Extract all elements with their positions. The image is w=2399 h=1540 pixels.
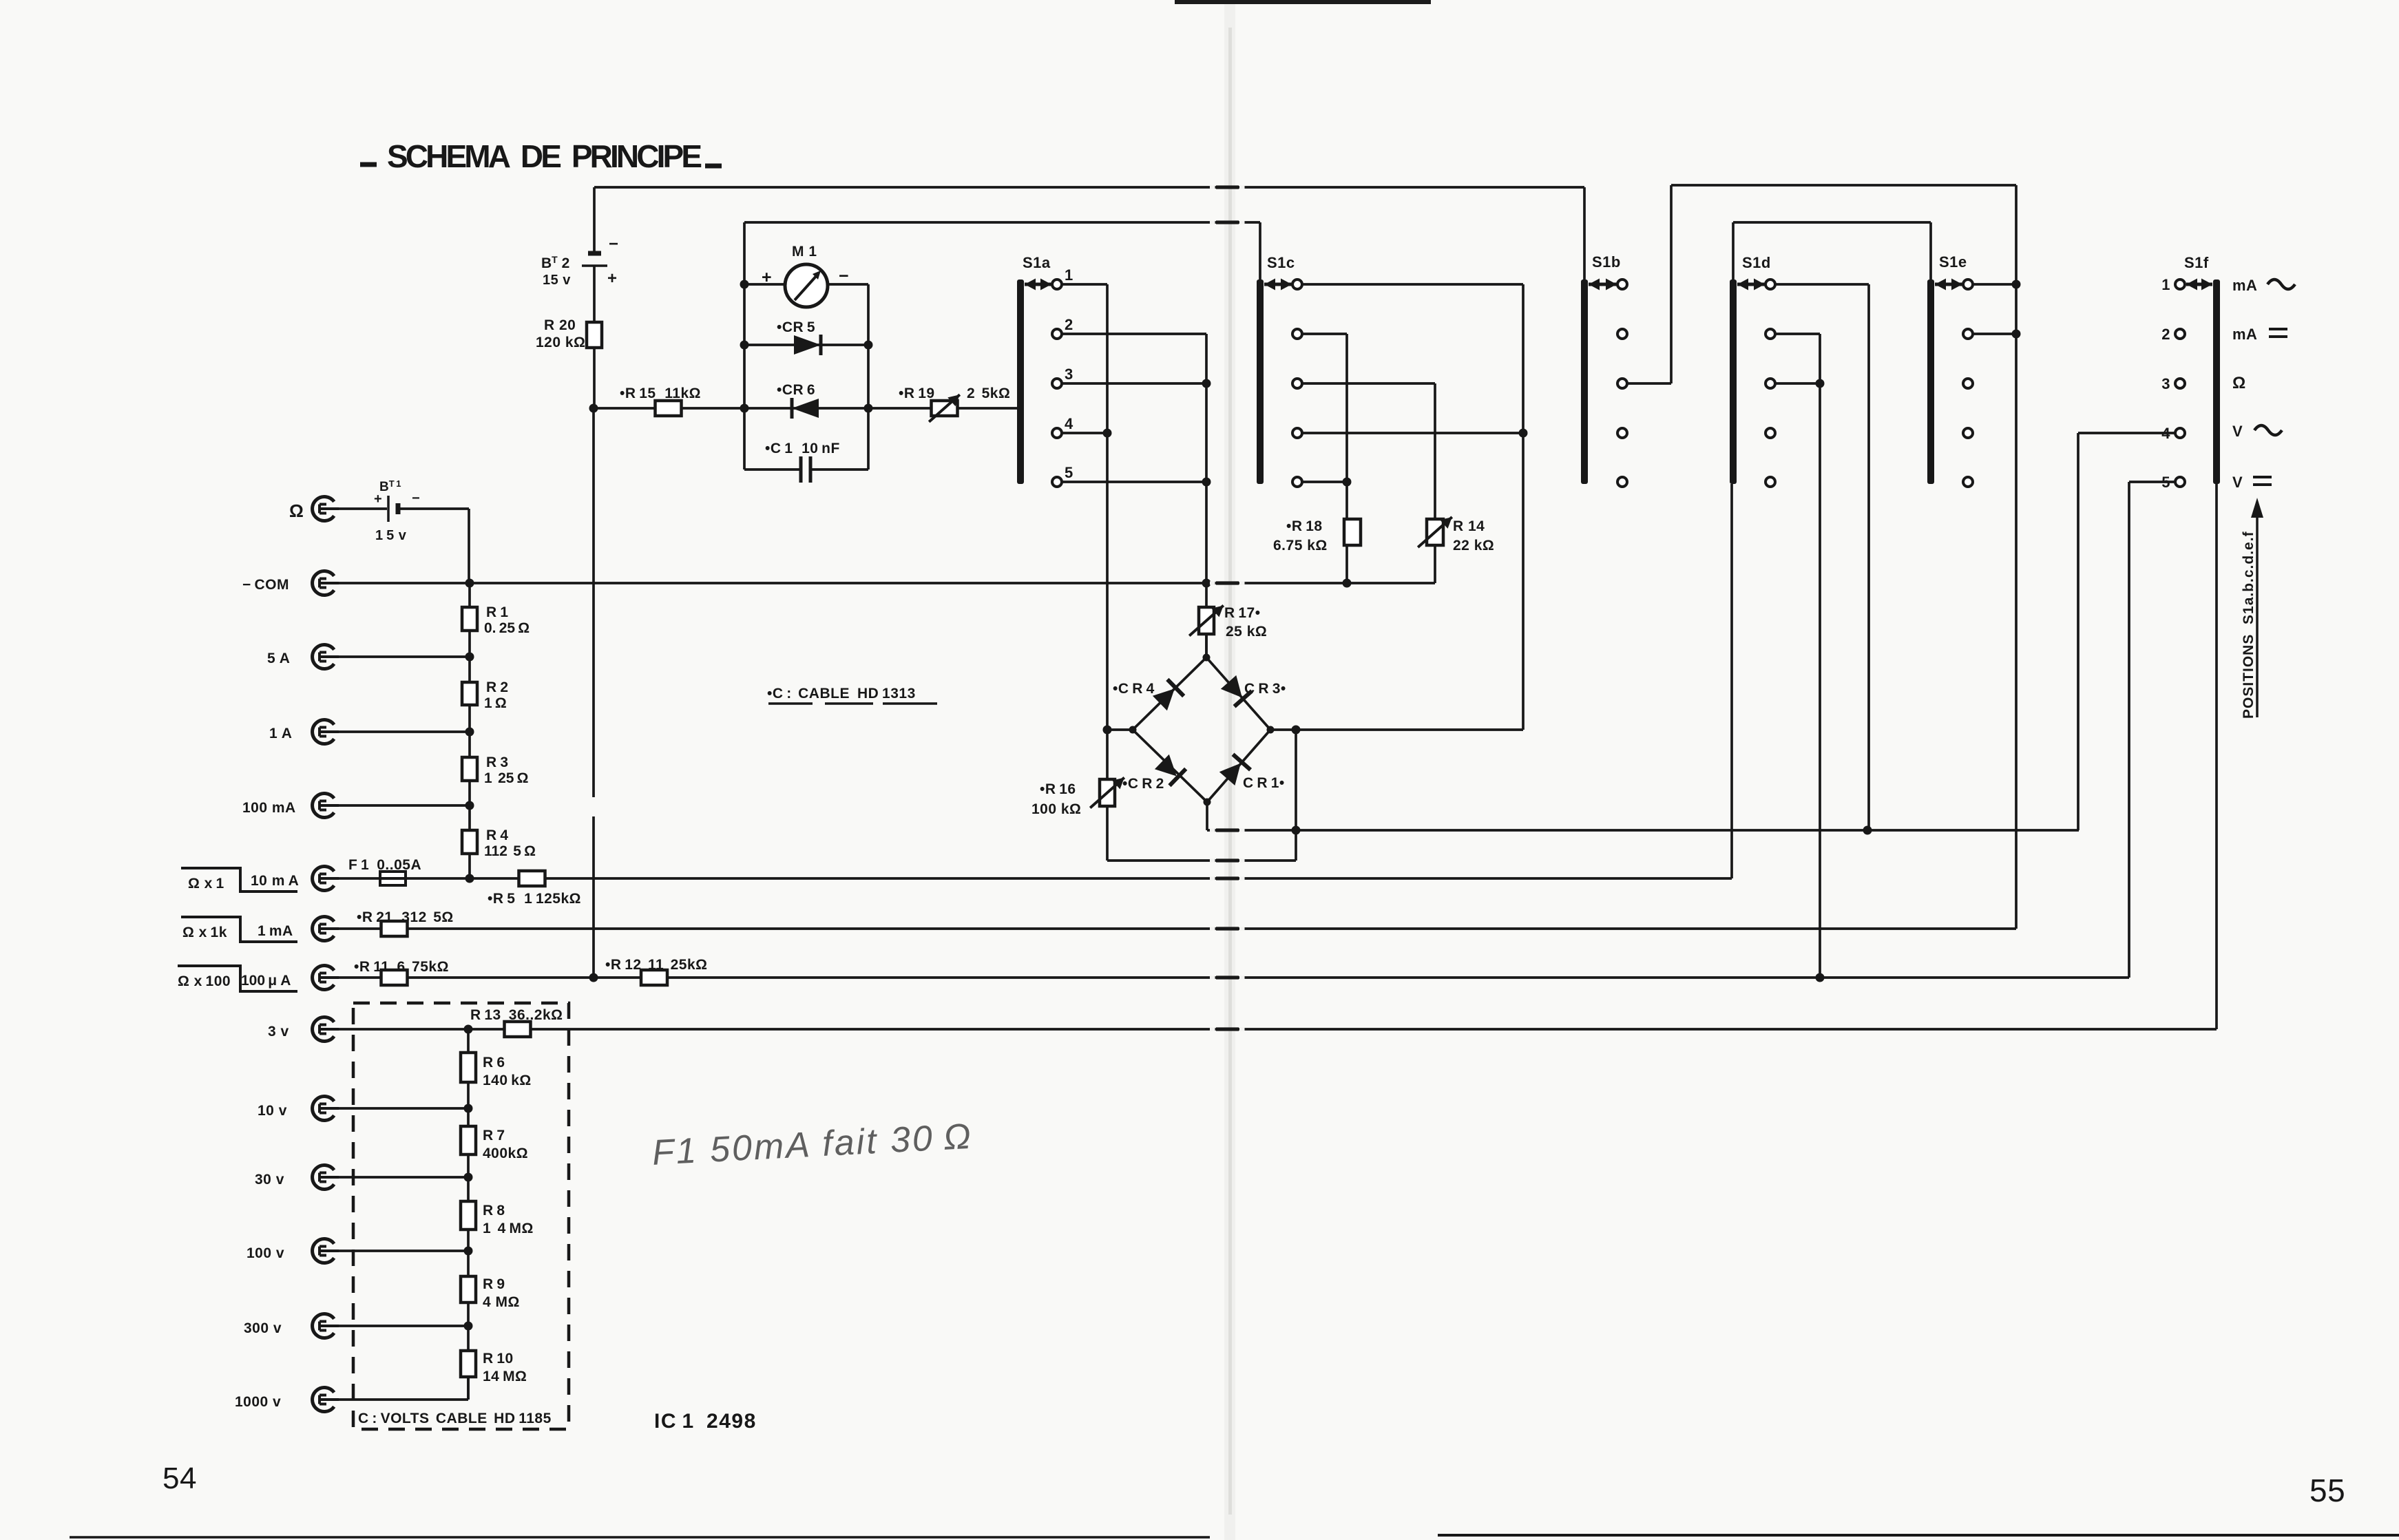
switch S1b contact 3 <box>1617 379 1627 388</box>
diode CR4 <box>1113 679 1184 710</box>
bracket ohms x1 <box>181 868 297 892</box>
wire S1c contact3 <box>1302 382 1435 385</box>
diode CR2 <box>1122 755 1186 792</box>
wire S1a contact4 <box>1062 432 1107 434</box>
top scan artifact bar <box>1175 0 1431 4</box>
bracket ohms x1k <box>181 917 297 942</box>
switch S1d contact 4 <box>1766 428 1775 438</box>
terminal 3V jack <box>268 1017 339 1041</box>
wire S1c contact5 <box>1302 481 1347 483</box>
terminal 1mA jack <box>258 917 339 941</box>
wire 10V <box>339 1107 468 1110</box>
svg-text:•R 5 1 125kΩ: •R 5 1 125kΩ <box>488 891 581 907</box>
wire 10mA rail <box>339 877 1732 880</box>
switch S1e bar <box>1927 253 1967 484</box>
switch S1e contact 1 <box>1963 279 1973 289</box>
terminal 100V jack <box>247 1239 339 1263</box>
fuse F1 0.05A <box>348 857 421 885</box>
wire S1d bar continuation to 10mA rail <box>1730 484 1733 878</box>
svg-text:C R 1•: C R 1• <box>1243 775 1285 791</box>
switch S1f wiper arrow <box>2186 279 2212 291</box>
wire S1d c2-c3 riser <box>1819 334 1821 978</box>
switch S1b contact 2 <box>1617 329 1627 339</box>
wire S1f contact5 <box>2129 481 2175 483</box>
wire bridge edge CR1 <box>1207 730 1270 802</box>
svg-text:5 A: 5 A <box>267 651 290 666</box>
bottom scan edge line right <box>1438 1534 2399 1537</box>
svg-text:•R 15 11kΩ: •R 15 11kΩ <box>620 386 701 401</box>
svg-text:R 9: R 9 <box>483 1276 505 1292</box>
terminal 100uA jack <box>241 966 339 990</box>
svg-text:1000 v: 1000 v <box>235 1394 281 1410</box>
svg-text:R 14: R 14 <box>1453 518 1485 534</box>
svg-text:2 5kΩ: 2 5kΩ <box>967 386 1010 401</box>
wire bottom return rail <box>1107 859 1296 862</box>
svg-text:•R 11 6 75kΩ: •R 11 6 75kΩ <box>354 959 449 975</box>
wire meter row <box>744 283 868 286</box>
resistor R18 6.75k <box>1273 518 1361 553</box>
wire S1c top stub <box>1259 222 1261 279</box>
wire meter box right vertical <box>867 284 870 470</box>
junction 300V chain <box>464 1322 473 1331</box>
wire S1e contact2 <box>1973 333 2016 335</box>
wire S1b contact3 riser to top <box>1670 185 1673 383</box>
battery BT1 1.5v <box>374 478 420 543</box>
junction 10mA chain <box>465 874 474 883</box>
svg-text:1 mA: 1 mA <box>258 923 293 939</box>
switch S1c contact 5 <box>1292 477 1302 487</box>
junction R15 node <box>589 404 598 413</box>
label V AC <box>2232 423 2282 440</box>
junction CR5 left <box>740 341 749 350</box>
svg-text:112 5 Ω: 112 5 Ω <box>484 843 536 859</box>
wire S1a riser c1-c4 <box>1106 284 1109 861</box>
wire x1882 vertical <box>1295 730 1297 861</box>
junction bridge right corner <box>1267 726 1275 734</box>
wire 30V <box>339 1176 468 1179</box>
wire 5A <box>339 655 470 658</box>
wire S1d top stub <box>1732 222 1735 279</box>
diode CR3 <box>1221 675 1286 706</box>
junction 3V chain <box>464 1025 473 1034</box>
wire R15 to meter box <box>682 407 744 410</box>
svg-text:14 MΩ: 14 MΩ <box>483 1369 527 1384</box>
wire bridge bottom rail <box>1207 829 2079 832</box>
wire S1f c4 riser <box>2077 433 2080 830</box>
junction bridge right x1882 <box>1292 726 1301 735</box>
svg-text:100 v: 100 v <box>247 1245 284 1261</box>
svg-text:•R 19: •R 19 <box>899 386 935 401</box>
junction bottom rail S1d c1 <box>1863 826 1872 835</box>
wire bridge edge CR4 <box>1133 657 1206 730</box>
switch S1c bar <box>1257 254 1295 484</box>
switch S1e contact 2 <box>1963 329 1973 339</box>
terminal 30V jack <box>255 1165 339 1189</box>
switch S1d contact 2 <box>1766 329 1775 339</box>
wire S1c contact1 to x2212 <box>1302 283 1523 286</box>
svg-text:2: 2 <box>2161 326 2170 343</box>
svg-text:5: 5 <box>1065 464 1073 481</box>
wire S1c c2 riser through R18 <box>1345 334 1348 583</box>
switch S1f bar <box>2184 254 2220 484</box>
svg-text:4 MΩ: 4 MΩ <box>483 1294 520 1310</box>
svg-text:1 5 v: 1 5 v <box>375 528 407 543</box>
switch S1a contact 1 <box>1052 266 1073 289</box>
wire 100mA <box>339 804 470 807</box>
wire meter box left vertical <box>743 222 746 470</box>
svg-text:300 v: 300 v <box>244 1320 282 1336</box>
bracket ohms x100 <box>178 966 297 991</box>
svg-text:10 m A: 10 m A <box>251 873 299 889</box>
svg-text:+: + <box>762 268 772 287</box>
svg-text:6.75 kΩ: 6.75 kΩ <box>1273 538 1328 553</box>
potentiometer R16 100k <box>1031 778 1124 818</box>
svg-text:POSITIONS S1a.b.c.d.e.f: POSITIONS S1a.b.c.d.e.f <box>2241 531 2256 719</box>
switch S1a contact 3 <box>1052 366 1073 388</box>
switch S1f contact 5 <box>2161 474 2185 491</box>
wire S1d-S1e top rail <box>1733 221 1931 224</box>
junction bridge top corner <box>1203 654 1211 662</box>
wire x2212 riser <box>1522 284 1525 730</box>
terminal 300V jack <box>244 1314 339 1338</box>
wire R6-R10 chain <box>467 1029 470 1400</box>
svg-text:1 4 MΩ: 1 4 MΩ <box>483 1221 534 1236</box>
svg-text:•C R 4: •C R 4 <box>1113 681 1155 697</box>
resistor R1 0.25 <box>462 604 530 636</box>
wire S1c c3 riser through R14 <box>1434 383 1436 583</box>
svg-text:IC 1 2498: IC 1 2498 <box>654 1410 757 1433</box>
junction 30V chain <box>464 1173 473 1182</box>
wire BT2 top lead <box>593 187 596 253</box>
switch S1f contact 2 <box>2161 326 2185 343</box>
svg-text:R 1: R 1 <box>486 604 509 620</box>
junction S1e c1 on x2928 <box>2012 280 2021 289</box>
wire top rail S1b to S1e riser <box>1671 184 2016 187</box>
svg-text:•R 21 312 5Ω: •R 21 312 5Ω <box>357 909 454 925</box>
wire S1d c1 riser <box>1867 284 1870 830</box>
switch S1b wiper arrow <box>1589 279 1617 291</box>
wire S1a riser c2-c3-c5 <box>1205 334 1208 657</box>
switch S1e wiper arrow <box>1935 279 1962 291</box>
diode CR1 <box>1219 755 1285 791</box>
wire S1d contact1 <box>1775 283 1869 286</box>
svg-text:mA: mA <box>2232 277 2257 294</box>
wire S1b top stub <box>1583 187 1586 279</box>
wire R19 to S1a <box>958 407 1020 410</box>
wire bridge right corner rail <box>1270 728 1523 731</box>
svg-text:R 4: R 4 <box>486 827 509 843</box>
svg-text:R 13 36..2kΩ: R 13 36..2kΩ <box>470 1007 563 1023</box>
svg-text:S1e: S1e <box>1939 253 1967 271</box>
wire inner-box top rail to S1c <box>744 221 1260 224</box>
terminal 1A jack <box>269 720 339 744</box>
switch S1c contact 3 <box>1292 379 1302 388</box>
svg-text:R 7: R 7 <box>483 1128 505 1143</box>
terminal 5A jack <box>267 644 339 668</box>
svg-text:V: V <box>2232 423 2243 440</box>
switch S1b contact 4 <box>1617 428 1627 438</box>
wire S1d contact3 <box>1775 382 1820 385</box>
svg-text:R 8: R 8 <box>483 1203 505 1219</box>
label V DC <box>2232 474 2272 491</box>
svg-text:Ω x 1: Ω x 1 <box>188 876 224 892</box>
junction S1c c4 on x2212 <box>1519 429 1528 438</box>
wire 100uA rail <box>339 976 2129 979</box>
switch S1e contact 5 <box>1963 477 1973 487</box>
resistor R13 36.2k <box>470 1007 563 1037</box>
svg-text:Ω x 100: Ω x 100 <box>178 973 231 989</box>
label ohms <box>2232 374 2246 392</box>
svg-text:S1d: S1d <box>1742 254 1771 271</box>
wire BT1 to corner <box>399 507 469 510</box>
wire R15 left lead <box>594 407 655 410</box>
junction COM-R1 chain <box>465 579 474 588</box>
wire COM rail <box>333 582 1435 584</box>
wire BT2 to R20 <box>593 266 596 322</box>
svg-text:R 10: R 10 <box>483 1351 514 1367</box>
svg-text:R 20: R 20 <box>544 317 576 333</box>
junction 100V chain <box>464 1247 473 1256</box>
svg-text:S1b: S1b <box>1592 253 1621 271</box>
switch S1c contact 1 <box>1292 279 1302 289</box>
junction S1d c3 on riser <box>1816 379 1825 388</box>
svg-text:•C : CABLE HD 1313: •C : CABLE HD 1313 <box>767 686 916 702</box>
terminal 10V jack <box>258 1096 339 1120</box>
wire C1 row <box>744 468 868 471</box>
switch S1c wiper arrow <box>1264 279 1292 291</box>
junction S1c c5 riser <box>1343 478 1352 487</box>
terminal COM jack <box>242 571 339 595</box>
switch S1a contact 5 <box>1052 464 1073 487</box>
terminal 100mA jack <box>242 794 339 818</box>
svg-text:Ω x 1k: Ω x 1k <box>182 925 227 940</box>
junction 100uA BT2 column <box>589 973 598 982</box>
wire S1a contact3 <box>1062 382 1206 385</box>
svg-text:400kΩ: 400kΩ <box>483 1146 528 1161</box>
junction 10V chain <box>464 1104 473 1113</box>
wire bridge edge CR2 <box>1133 730 1207 802</box>
label mA AC <box>2232 277 2295 294</box>
switch S1a wiper arrow <box>1025 279 1051 291</box>
svg-text:1 Ω: 1 Ω <box>484 695 507 711</box>
wire ohms jack to BT1 <box>339 507 387 510</box>
junction 100mA chain <box>465 801 474 810</box>
svg-text:− COM: − COM <box>242 577 289 593</box>
switch S1d bar <box>1730 254 1771 484</box>
resistor R20 120k <box>536 317 602 350</box>
svg-text:•CR 6: •CR 6 <box>777 382 815 398</box>
svg-text:4: 4 <box>1065 415 1073 432</box>
resistor R5 1.125k <box>488 871 581 907</box>
wire BT1 corner down to COM <box>468 509 470 583</box>
label mA DC <box>2232 326 2287 343</box>
diode CR6 <box>777 382 819 419</box>
wire bridge bottom stub <box>1206 802 1208 830</box>
svg-text:0. 25 Ω: 0. 25 Ω <box>484 620 530 636</box>
wire 1000V <box>339 1377 468 1400</box>
svg-text:S1c: S1c <box>1267 254 1295 271</box>
switch S1a contact 2 <box>1052 316 1073 339</box>
wire S1e top stub <box>1929 222 1932 279</box>
potentiometer R17 25k <box>1189 605 1267 640</box>
switch S1d contact 1 <box>1766 279 1775 289</box>
resistor R3 1.25 <box>462 755 529 786</box>
resistor R9 4M <box>461 1276 520 1310</box>
svg-text:•C 1 10 nF: •C 1 10 nF <box>765 441 840 456</box>
junction CR6 left <box>740 404 749 413</box>
junction COM-R17 riser <box>1202 579 1211 588</box>
junction bridge left on riser <box>1103 726 1112 735</box>
wire riser x2928 down to 1mA rail <box>2015 185 2018 929</box>
label volts cable <box>358 1411 552 1426</box>
terminal 10mA jack <box>251 867 339 891</box>
wire bridge left corner stub <box>1107 728 1133 731</box>
wire R1-R4 chain <box>468 583 471 878</box>
terminal 1000V jack <box>235 1388 339 1412</box>
junction CR5 right <box>864 341 873 350</box>
wire R20 to R15 node <box>593 348 596 408</box>
wire S1c contact2 <box>1302 333 1347 335</box>
switch S1d contact 5 <box>1766 477 1775 487</box>
svg-text:SCHEMA DE PRINCIPE: SCHEMA DE PRINCIPE <box>387 138 704 174</box>
svg-text:100 μ A: 100 μ A <box>241 973 291 989</box>
potentiometer R19 2.5k <box>899 386 1010 422</box>
junction S1e c2 on x2928 <box>2012 330 2021 339</box>
meter M1 <box>762 244 849 307</box>
wire S1a contact1 to riser <box>1062 283 1107 286</box>
page number 55 <box>2309 1473 2345 1508</box>
svg-text:+: + <box>607 269 618 288</box>
svg-text:3 v: 3 v <box>268 1024 289 1040</box>
wire CR6 row <box>744 407 868 410</box>
svg-text:1 25 Ω: 1 25 Ω <box>484 770 529 786</box>
svg-text:1 A: 1 A <box>269 726 292 741</box>
svg-text:M 1: M 1 <box>792 244 817 260</box>
wire S1f c5 riser <box>2128 482 2130 978</box>
switch S1e contact 3 <box>1963 379 1973 388</box>
svg-text:•C R 2: •C R 2 <box>1122 776 1164 792</box>
resistor R6 140k <box>461 1053 532 1088</box>
switch S1f contact 3 <box>2161 375 2185 392</box>
wire CR6 row to R19 <box>868 407 931 410</box>
svg-text:R 3: R 3 <box>486 755 509 770</box>
svg-text:•R 18: •R 18 <box>1286 518 1323 534</box>
svg-text:C R 3•: C R 3• <box>1244 681 1286 697</box>
wire S1c contact4 <box>1302 432 1523 434</box>
svg-text:15 v: 15 v <box>543 273 571 288</box>
svg-text:Ω: Ω <box>289 500 304 521</box>
junction bottom rail x1882 <box>1292 826 1301 835</box>
wire 100V <box>339 1249 468 1252</box>
svg-text:10 v: 10 v <box>258 1103 287 1119</box>
junction CR6 right <box>864 404 873 413</box>
wire S1e contact1 <box>1973 283 2016 286</box>
svg-text:140 kΩ: 140 kΩ <box>483 1073 532 1088</box>
junction 5A chain <box>465 653 474 662</box>
junction 100uA S1d riser <box>1816 973 1825 982</box>
scan fold wire breaks <box>1210 185 1245 1031</box>
wire 1mA rail <box>339 927 2016 930</box>
svg-text:1: 1 <box>2161 276 2170 293</box>
svg-text:−: − <box>839 266 849 286</box>
switch S1c contact 2 <box>1292 329 1302 339</box>
battery BT2 15v <box>541 235 619 288</box>
svg-text:25 kΩ: 25 kΩ <box>1226 624 1267 640</box>
junction bridge bottom corner <box>1204 799 1211 806</box>
svg-text:22 kΩ: 22 kΩ <box>1453 538 1494 553</box>
svg-text:−: − <box>609 235 619 253</box>
svg-text:•CR 5: •CR 5 <box>777 319 815 335</box>
terminal ohms jack <box>289 497 339 522</box>
wire 1A <box>339 730 470 733</box>
resistor R7 400k <box>461 1126 528 1161</box>
wire bridge edge CR3 <box>1206 657 1270 730</box>
page number 54 <box>163 1462 197 1495</box>
svg-text:•R 12 11 25kΩ: •R 12 11 25kΩ <box>605 957 707 973</box>
junction meter row left <box>740 280 749 289</box>
wire S1f bar continuation to 3V rail <box>2215 484 2218 1029</box>
svg-text:S1f: S1f <box>2184 254 2209 271</box>
resistor R2 1 <box>462 679 509 711</box>
wire 300V <box>339 1325 468 1327</box>
wire S1d contact2 <box>1775 333 1820 335</box>
dashed cable box <box>353 1003 569 1429</box>
junction 1A chain <box>465 728 474 737</box>
wire top rail from BT2 to S1b <box>594 186 1584 189</box>
wire S1a contact2 <box>1062 333 1206 335</box>
potentiometer R14 22k <box>1418 517 1494 553</box>
resistor R8 1.4M <box>461 1201 534 1236</box>
svg-text:R 2: R 2 <box>486 679 509 695</box>
svg-text:3: 3 <box>1065 366 1073 383</box>
svg-text:V: V <box>2232 474 2243 491</box>
junction COM-R18 <box>1343 579 1352 588</box>
svg-text:100 mA: 100 mA <box>242 800 296 816</box>
switch S1c contact 4 <box>1292 428 1302 438</box>
svg-text:2: 2 <box>1065 316 1073 333</box>
junction S1a c3 riser <box>1202 379 1211 388</box>
handwritten note F1 50mA fait 30ohm <box>651 1117 974 1173</box>
switch S1d wiper arrow <box>1737 279 1765 291</box>
svg-text:R 17•: R 17• <box>1224 605 1261 621</box>
svg-text:F 1 0..05A: F 1 0..05A <box>348 857 421 873</box>
wire 3V rail <box>339 1028 2217 1031</box>
switch S1b contact 1 <box>1617 279 1627 289</box>
svg-text:54: 54 <box>163 1462 197 1495</box>
svg-text:•R 16: •R 16 <box>1040 781 1076 797</box>
switch S1d contact 3 <box>1766 379 1775 388</box>
label IC1 2498 <box>654 1410 757 1433</box>
resistor R15 11k <box>620 386 701 416</box>
svg-text:S1a: S1a <box>1023 254 1051 271</box>
resistor R10 14M <box>461 1351 527 1384</box>
svg-text:R 6: R 6 <box>483 1055 505 1070</box>
resistor R11 6.75k <box>354 959 449 985</box>
svg-text:−: − <box>412 491 420 506</box>
svg-text:1: 1 <box>1065 266 1073 284</box>
svg-text:Ω: Ω <box>2232 374 2246 392</box>
resistor R12 11.25k <box>605 957 707 985</box>
title SCHEMA DE PRINCIPE <box>360 138 722 174</box>
svg-text:100 kΩ: 100 kΩ <box>1031 801 1081 817</box>
svg-text:30 v: 30 v <box>255 1172 284 1188</box>
label C CABLE HD 1313 <box>767 686 937 706</box>
switch S1b contact 5 <box>1617 477 1627 487</box>
wire CR5 row <box>744 344 868 346</box>
positions S1abcdef arrow <box>2241 498 2263 719</box>
svg-text:mA: mA <box>2232 326 2257 343</box>
switch S1a contact 4 <box>1052 415 1073 438</box>
